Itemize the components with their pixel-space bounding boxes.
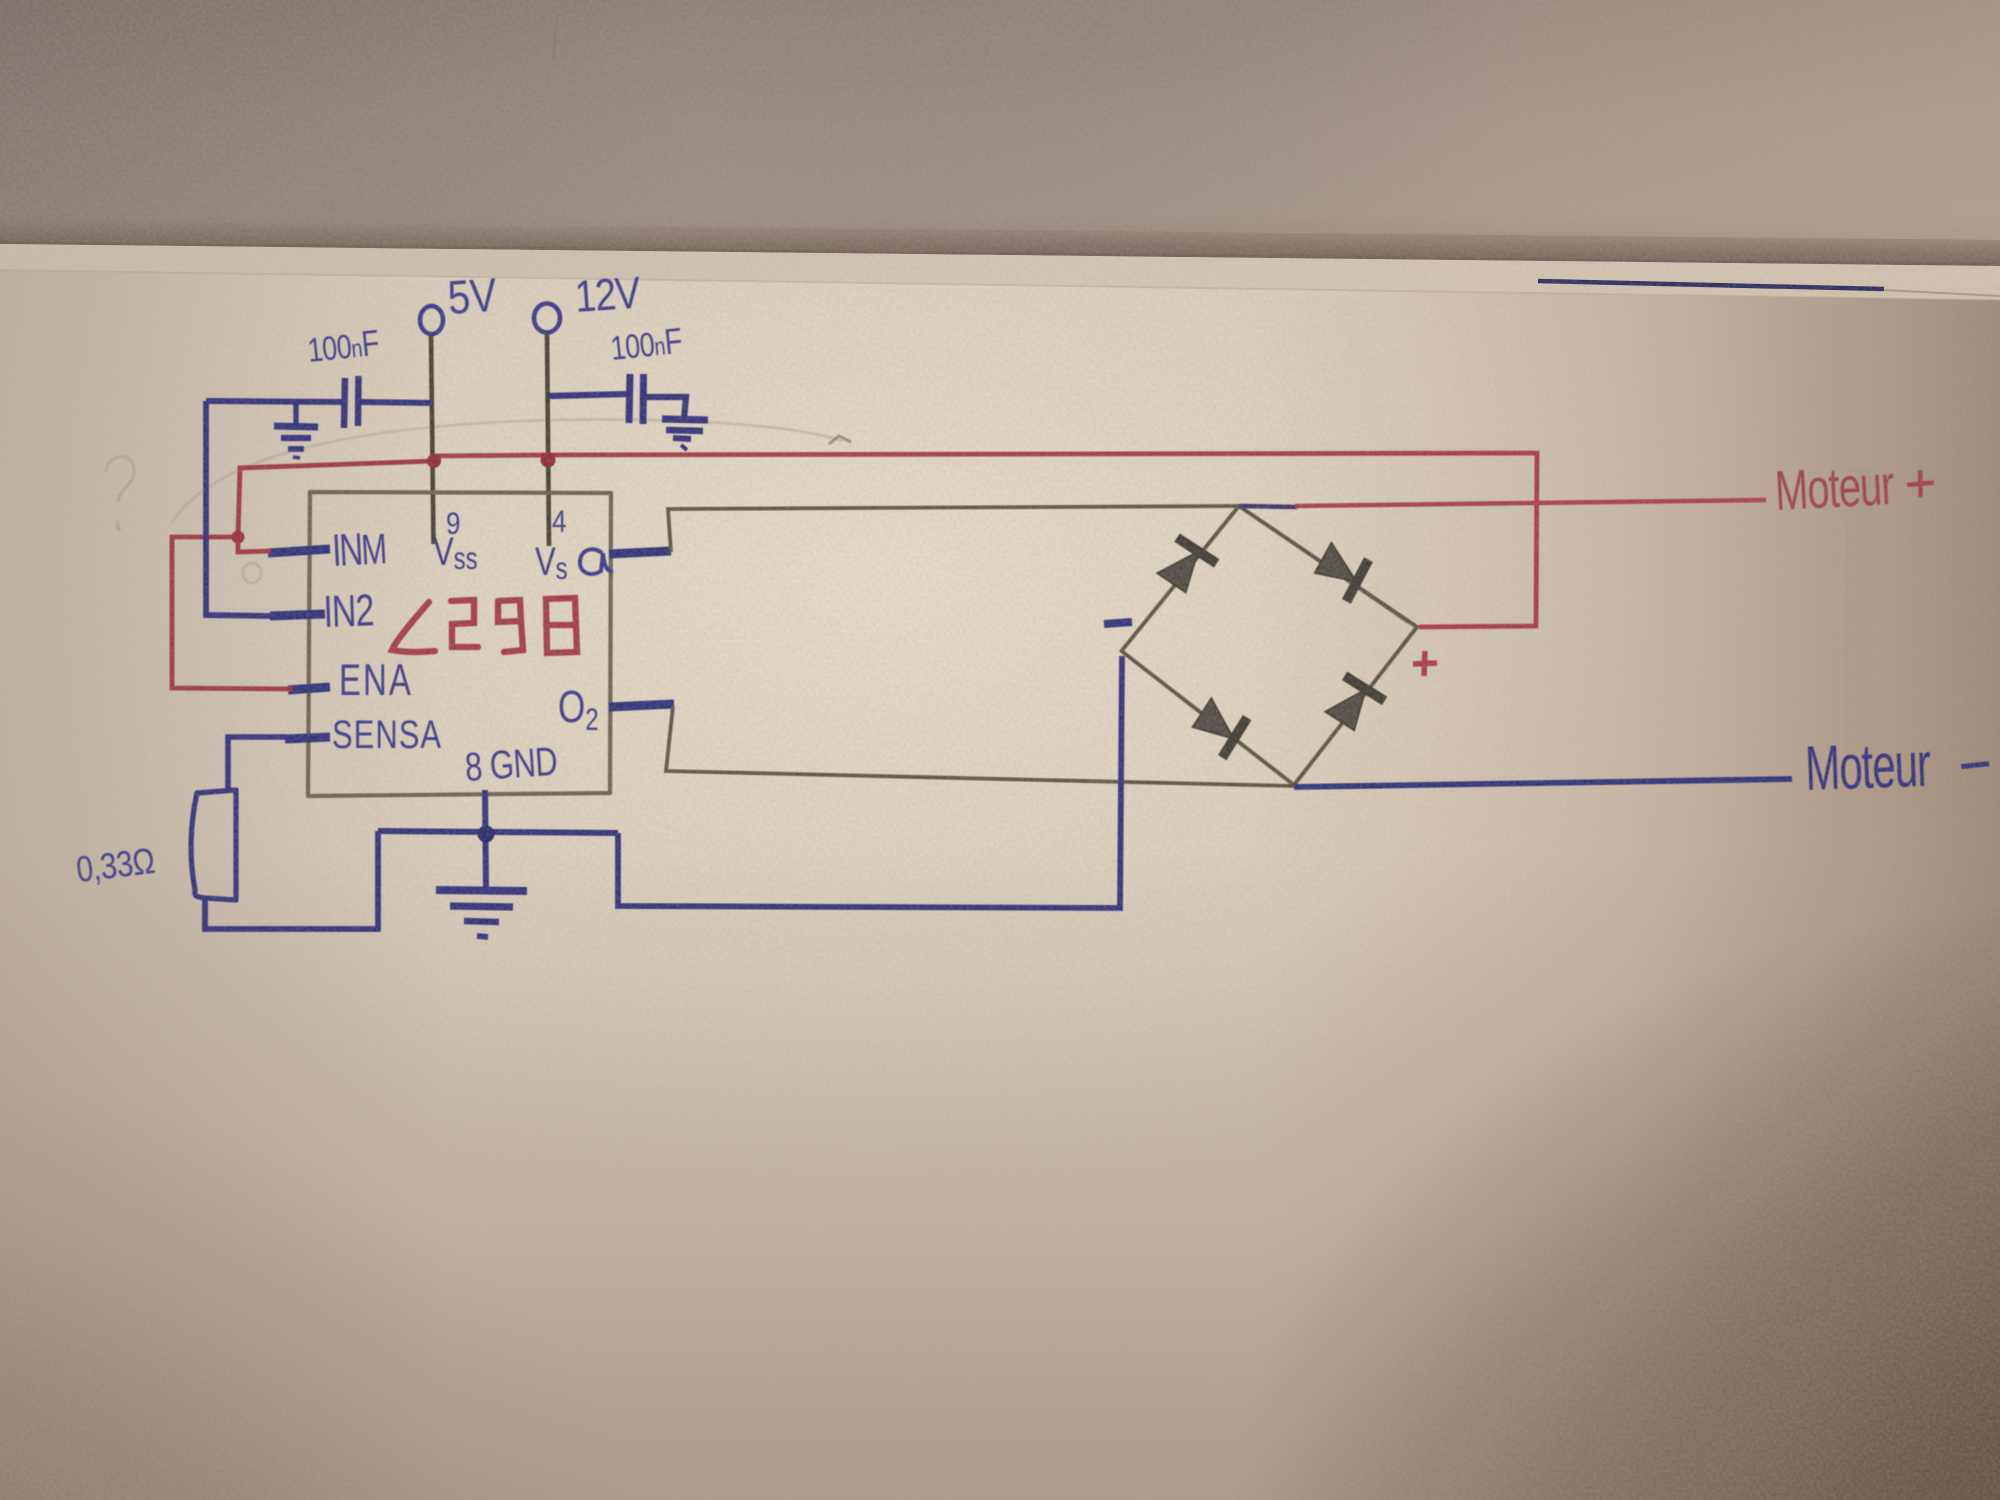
wire blue gnd horizontal	[378, 831, 618, 833]
wall band at top of photo	[0, 0, 2000, 266]
node plus label	[1413, 651, 1437, 676]
wire red 5V rail to bridge	[433, 453, 1537, 627]
pin O2 label	[558, 681, 599, 737]
faint pencil arc over IC	[172, 420, 843, 522]
pin stub O2	[609, 704, 674, 707]
diode bridge diamond	[1122, 506, 1418, 785]
scratch mark on wall	[553, 14, 557, 60]
pin stub IN2	[270, 614, 325, 616]
pin IN2 label	[323, 586, 375, 637]
wire blue minus node down	[618, 656, 1122, 908]
resistor R1 0.33 ohm	[191, 790, 236, 900]
wire gray O1 to bridge top	[668, 506, 1239, 552]
wire GND pin down	[485, 790, 486, 889]
junction dot GND	[478, 826, 495, 843]
terminal 12V	[534, 267, 642, 333]
diode D3	[1187, 693, 1251, 758]
wall contact shadow line	[0, 243, 2000, 265]
wire 12V to Vs pin	[547, 333, 549, 546]
capacitor C2 100nF	[548, 320, 686, 424]
ground (left capacitor)	[274, 402, 318, 458]
terminal 5V	[420, 269, 499, 334]
paper sheet top edge band	[0, 244, 2000, 300]
pin O1 label	[580, 549, 613, 574]
subtle paper shading streak	[1858, 470, 1862, 760]
pin SENSA label	[332, 712, 442, 757]
ground (right capacitor)	[662, 419, 708, 450]
wire blue Moteur minus	[1294, 779, 1792, 787]
wire IN2 to left riser	[206, 401, 270, 616]
node minus label	[1104, 622, 1132, 624]
junction dot red branch	[232, 531, 245, 544]
capacitor C1 100nF	[206, 322, 431, 428]
pin INM label	[331, 523, 387, 576]
label Moteur plus	[1773, 454, 1895, 522]
pin ENA label	[339, 656, 413, 705]
wire red branch to INM and ENA	[172, 461, 434, 689]
junction dot at 12V rail	[541, 453, 556, 468]
pin stub INM	[268, 549, 330, 553]
wire double stroke on bridge NE edge	[1247, 512, 1408, 623]
faint circle mark	[243, 563, 261, 583]
pin 9 label	[446, 507, 460, 542]
pin 8 GND label	[463, 738, 558, 790]
pin stub O1	[609, 551, 671, 554]
diode D2	[1309, 537, 1373, 601]
pin stub SENSA	[285, 737, 330, 739]
faint question mark	[106, 457, 134, 531]
wire 5V to Vss pin	[431, 334, 434, 544]
pin Vss label	[433, 528, 478, 576]
sheet crease right of pen line	[1884, 290, 2000, 296]
pin stub ENA	[288, 687, 330, 690]
pin 4 label	[552, 505, 566, 540]
diode D1	[1152, 534, 1217, 599]
pencil tick near node	[829, 436, 851, 444]
label 0,33 ohm	[74, 841, 157, 890]
wire SENSA to resistor	[228, 737, 287, 791]
wire red Moteur plus	[1295, 500, 1766, 506]
IC U1 L298 box	[308, 492, 611, 796]
ground (main)	[436, 890, 527, 937]
label Moteur minus	[1804, 730, 1931, 804]
diode D4	[1320, 672, 1385, 736]
pin Vs label	[535, 538, 568, 586]
junction dot at 5V rail	[427, 454, 441, 468]
label L298 (red squarish digits)	[392, 598, 577, 653]
wire blue left drop	[205, 831, 378, 929]
pen line along sheet edge top right	[1538, 281, 1884, 289]
wire gray O2 to bridge bottom	[666, 706, 1294, 786]
wire dark segment at bridge top corner	[1239, 506, 1297, 507]
